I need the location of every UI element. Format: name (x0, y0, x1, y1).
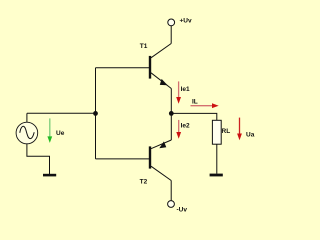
wire T1 emitter to junction (170, 89, 172, 114)
sine symbol (20, 126, 34, 138)
node base junction (93, 111, 98, 116)
svg-text:RL: RL (222, 128, 231, 135)
wire T2 base (96, 158, 150, 160)
arrow Ue (green) (49, 118, 51, 137)
svg-text:-Uv: -Uv (177, 206, 188, 213)
svg-text:Ue: Ue (56, 130, 65, 137)
wire source top (26, 113, 28, 122)
ground (RL) (210, 174, 223, 177)
wire RL to ground (216, 144, 218, 174)
svg-text:Ie1: Ie1 (181, 86, 190, 93)
svg-text:T2: T2 (140, 178, 148, 185)
ground (source) (43, 174, 56, 177)
terminal -Uv (168, 201, 175, 208)
wire source rail (27, 112, 96, 114)
arrow Ie2 (red) (178, 120, 180, 133)
svg-text:+Uv: +Uv (180, 18, 192, 25)
resistor RL (212, 120, 221, 144)
node output junction (169, 111, 174, 116)
terminal +Uv (168, 19, 175, 26)
source Ue circle (16, 122, 38, 144)
wire +Uv stub to T1 collector (170, 26, 172, 44)
wire output rail to RL (171, 113, 217, 120)
arrow Ie1 (red) (178, 81, 180, 97)
transistor T2 (150, 140, 171, 181)
wire junction to T2 emitter (170, 113, 172, 140)
wire T1 base (96, 67, 150, 69)
svg-text:IL: IL (192, 99, 198, 106)
transistor T1 (150, 44, 171, 89)
wire T2 collector to -Uv (170, 181, 172, 201)
arrow IL (red) (191, 105, 214, 107)
wire source bottom to ground (27, 144, 50, 174)
svg-text:Ie2: Ie2 (181, 122, 190, 129)
svg-text:Ua: Ua (246, 131, 255, 138)
wire base bus vertical (95, 68, 97, 159)
svg-text:T1: T1 (140, 43, 148, 50)
arrow Ua (red) (239, 118, 241, 135)
